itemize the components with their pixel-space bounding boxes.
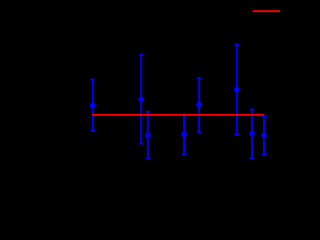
errorbar point 8, square marker (x=264.0) drawn over red line [261, 116, 266, 155]
errorbar point 5 (x=199.1) [196, 78, 202, 132]
errorbar point 3 (x=147.8) [145, 112, 151, 159]
errorbar point 6 (x=236.8) [234, 45, 240, 135]
errorbar point 7 (x=251.9) [249, 109, 255, 158]
errorbar point 1 (x=92.7) [90, 80, 96, 131]
errorbar point 4 (x=184.1) [181, 114, 187, 154]
legend red line sample [253, 10, 280, 12]
red theory line [92, 114, 264, 116]
errorbar point 2 (x=141.2) [138, 55, 144, 144]
